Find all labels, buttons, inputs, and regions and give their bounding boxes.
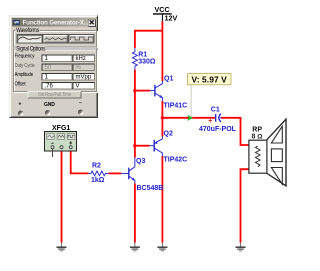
svg-text:Q3: Q3	[136, 158, 145, 165]
svg-text:12V: 12V	[165, 13, 178, 22]
svg-text:V: 5.97 V: V: 5.97 V	[192, 74, 228, 84]
svg-text:470uF-POL: 470uF-POL	[199, 126, 237, 133]
svg-text:TIP41C: TIP41C	[164, 103, 188, 110]
svg-text:R2: R2	[92, 163, 101, 170]
svg-text:TIP42C: TIP42C	[164, 157, 188, 164]
svg-text:XFG1: XFG1	[52, 125, 70, 132]
svg-text:1kΩ: 1kΩ	[91, 177, 105, 184]
svg-text:RP: RP	[252, 126, 262, 133]
svg-text:8: 8	[252, 133, 256, 140]
svg-text:Q2: Q2	[164, 130, 173, 137]
svg-text:330Ω: 330Ω	[138, 59, 156, 66]
svg-text:Q1: Q1	[164, 75, 173, 82]
svg-text:Ω: Ω	[257, 133, 263, 140]
svg-text:+: +	[208, 118, 212, 125]
svg-text:C1: C1	[211, 107, 220, 114]
svg-text:BC548B: BC548B	[137, 185, 164, 192]
svg-text:R1: R1	[138, 51, 147, 58]
